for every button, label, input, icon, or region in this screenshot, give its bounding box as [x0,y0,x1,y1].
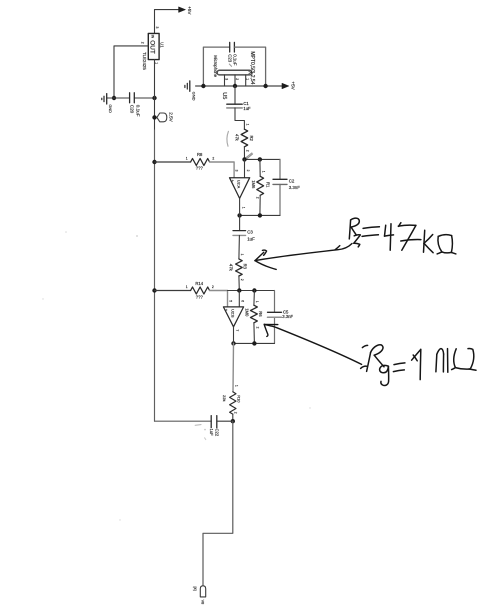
resistor R2 47k [235,129,254,147]
wire: R8 to U2A +input (gray) [210,162,235,178]
junction at 2.5V tag [152,115,156,119]
svg-text:2: 2 [246,150,250,152]
svg-text:1: 1 [186,157,188,161]
junction R6/rail [252,341,256,345]
svg-text:+5V: +5V [187,6,192,15]
svg-text:GND: GND [192,92,197,101]
wire: microphone supply rail [196,85,282,87]
capacitor C2 3.3nF (feedback) [273,159,300,215]
wire: +5V feed from U1 pin3 [155,10,179,34]
wire: output to R10 (gray) [232,343,235,391]
svg-text:R3: R3 [243,264,248,270]
svg-text:5: 5 [229,300,233,302]
resistor R3 47k [228,259,247,276]
svg-text:Microphone: Microphone [213,55,218,78]
resistor R8 ??? [155,152,215,171]
svg-text:3: 3 [224,78,228,80]
svg-text:2: 2 [246,170,250,172]
svg-text:IN: IN [151,35,155,39]
svg-text:GND: GND [108,104,112,113]
wire: node to U2B -input [238,291,240,307]
svg-text:1: 1 [234,385,238,387]
svg-text:6: 6 [240,300,244,302]
svg-text:3.3nF: 3.3nF [282,314,293,319]
svg-text:3: 3 [235,170,239,172]
handwritten annotation: R2 = 47kOhm [349,218,456,254]
connector pin (output) [193,586,206,604]
svg-text:2: 2 [212,285,214,289]
wire: 2.5V rail (left bus) [154,60,156,130]
microphone terminal U5 MPT0,5/3-2,54 [213,51,255,99]
svg-text:TLE2425: TLE2425 [142,52,147,70]
wire: U2A output down [239,198,241,230]
svg-text:C23: C23 [227,54,232,63]
svg-text:1uF: 1uF [209,429,214,437]
junction R1/node [258,157,262,161]
svg-text:1: 1 [241,207,245,209]
junction R2/node [242,157,246,161]
wire: mic output down to C1 [234,86,236,104]
svg-text:U1: U1 [160,42,165,48]
wire: C1 to R2 jog [235,108,244,129]
capacitor C5 3.3nF (feedback) [268,291,294,344]
junction at C20 left [112,96,116,100]
resistor R14 ??? [155,281,214,300]
svg-text:[4]: [4] [193,587,197,591]
mic pin stubs and pin numbers 3,2,1 [224,75,249,86]
svg-text:1: 1 [245,78,249,80]
voltage regulator U1 TLE2425 [142,33,165,70]
ground GND (U1 bypass) [102,94,114,113]
svg-text:C3: C3 [247,229,253,234]
svg-text:2: 2 [240,279,244,281]
net label 2.5V [157,112,173,122]
svg-text:2: 2 [234,412,238,414]
junction output/rail [237,213,241,217]
pencil mark near R2 [227,131,228,146]
wire: R10 to output node [232,414,234,421]
svg-text:1: 1 [240,254,244,256]
svg-text:R10: R10 [237,395,242,403]
junction mic loop left [201,84,205,88]
wire: R3 to stage2 node [238,276,240,291]
svg-text:22k: 22k [222,395,227,401]
svg-text:U5: U5 [221,92,227,99]
svg-text:R2: R2 [249,136,254,142]
svg-text:2: 2 [212,156,214,160]
junction R6/node [252,288,256,292]
pencil tick at R2 pin2 [246,153,253,159]
junction mic pin2 [233,84,237,88]
capacitor C1 1uF (input coupling) [227,101,251,111]
junction rail/R8 [152,160,156,164]
svg-text:C22: C22 [215,429,220,437]
wire: R2 to stage1 node [243,147,245,160]
svg-text:???: ??? [196,295,204,300]
svg-text:1M6: 1M6 [251,180,256,189]
wire: stage2 feedback bottom rail [234,342,275,344]
svg-text:1M0: 1M0 [245,308,250,317]
wire: stage1 inverting node row [245,158,281,160]
svg-text:3: 3 [155,27,159,29]
svg-text:47k: 47k [235,134,240,142]
resistor R10 22k [222,392,242,414]
wire: stage2 inverting node row [228,290,275,292]
power +5V (top) [179,6,193,15]
svg-text:C20: C20 [130,105,135,114]
svg-text:1uF: 1uF [243,106,251,111]
resistor R6 1M0 (feedback) [245,291,263,344]
svg-text:2.5V: 2.5V [168,112,173,122]
handwritten annotation: Rg = 1MOhm [361,345,476,386]
svg-text:1: 1 [186,285,188,289]
svg-text:R1: R1 [265,182,270,188]
wire: C3 to R3 [238,235,241,259]
svg-text:1: 1 [255,301,259,303]
svg-text:0.1uF: 0.1uF [135,105,140,117]
svg-text:1uF: 1uF [247,236,255,241]
wire: U2B output down [233,327,235,344]
junction rail/R14 [152,288,156,292]
svg-text:C1: C1 [243,101,249,106]
junction on rail at C20 [152,96,156,100]
svg-text:7: 7 [235,329,239,331]
wire: mic loop right side [234,47,265,86]
resistor R1 1M6 (feedback) [251,159,271,215]
capacitor C20 0.1uF [114,93,155,117]
svg-text:2: 2 [141,42,145,44]
wire: output run to connector [203,421,233,586]
junction R1/rail [258,213,262,217]
pencil dot near C22 [204,429,206,431]
power +5V (microphone) [282,81,296,90]
handwritten arrow to R3 [255,244,352,270]
ground GND (microphone) [185,81,197,101]
svg-text:???: ??? [196,166,204,171]
op-amp U2:A [230,178,250,199]
svg-text:2: 2 [235,78,239,80]
svg-text:C2: C2 [289,178,295,183]
junction R10/C22 [231,419,235,423]
wire: node to U2A -input [244,159,246,177]
svg-text:V8: V8 [201,600,205,605]
svg-text:2: 2 [256,197,260,199]
svg-text:2: 2 [255,327,259,329]
handwritten arrow to R6 [264,324,361,364]
pencil speckles [42,231,310,521]
wire: mic loop left side [203,47,229,86]
junction mic loop right [263,84,267,88]
svg-text:R6: R6 [258,311,263,317]
svg-text:1: 1 [246,124,250,126]
wire: stage1 feedback bottom rail [240,214,280,216]
svg-text:+5V: +5V [291,81,296,90]
pencil smudge near C22 [195,424,201,427]
capacitor C23 0.1uF [227,42,237,66]
wire: U1 pin2 (gnd) to C20/GND node [114,46,148,98]
svg-text:U2:A: U2:A [237,180,241,189]
wire: R14 to U2B +input (gray) [210,291,228,307]
svg-text:47k: 47k [228,264,233,272]
svg-text:0,1uF: 0,1uF [232,54,237,66]
svg-text:OUT: OUT [149,40,156,54]
svg-text:1: 1 [261,171,265,173]
svg-text:R8: R8 [197,152,203,157]
capacitor C3 1uF (interstage coupling) [233,229,255,241]
op-amp U2:B [223,307,243,327]
svg-text:R14: R14 [195,281,203,286]
svg-text:U2:B: U2:B [231,309,235,318]
junction output2/rail [231,341,235,345]
svg-text:3.3nF: 3.3nF [289,185,301,190]
capacitor C22 1uF [155,416,233,437]
junction R3/node [237,288,241,292]
